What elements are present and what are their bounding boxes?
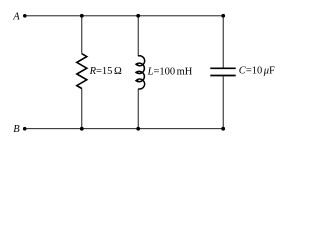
inductor value label L=100 mH [147, 66, 193, 77]
resistor value label R=15 Ohm [89, 66, 122, 77]
svg-text:C=10μF: C=10μF [239, 66, 275, 77]
wire top rail [25, 15, 223, 17]
inductor cusp fill 2 [135, 71, 138, 74]
junction dot bottom C [221, 127, 225, 131]
junction dot bottom L [136, 127, 140, 131]
junction dot bottom R [80, 127, 84, 131]
resistor R zigzag [77, 54, 87, 89]
svg-text:B: B [13, 124, 20, 135]
node A label [12, 11, 20, 22]
wire L branch bottom [137, 89, 139, 129]
wire C branch bottom [222, 76, 224, 128]
inductor cusp fill 1 [135, 63, 138, 66]
junction dot top C [221, 14, 225, 18]
svg-text:R=15Ω: R=15Ω [89, 66, 122, 77]
capacitor C top plate [210, 67, 235, 69]
wire R branch top [81, 16, 83, 54]
node A terminal dot [23, 14, 27, 18]
capacitor value label C=10 uF [239, 66, 275, 77]
wire L branch top [137, 16, 139, 56]
svg-text:A: A [12, 11, 20, 22]
capacitor C bottom plate [210, 75, 235, 77]
inductor L coil [136, 56, 145, 89]
wire R branch bottom [81, 89, 83, 129]
node B label [13, 124, 20, 135]
junction dot top R [80, 14, 84, 18]
inductor cusp fill 3 [135, 79, 138, 82]
wire C branch top [222, 16, 224, 68]
node B terminal dot [23, 127, 27, 131]
svg-text:L=100mH: L=100mH [147, 66, 193, 77]
junction dot top L [136, 14, 140, 18]
wire bottom rail [25, 128, 224, 130]
